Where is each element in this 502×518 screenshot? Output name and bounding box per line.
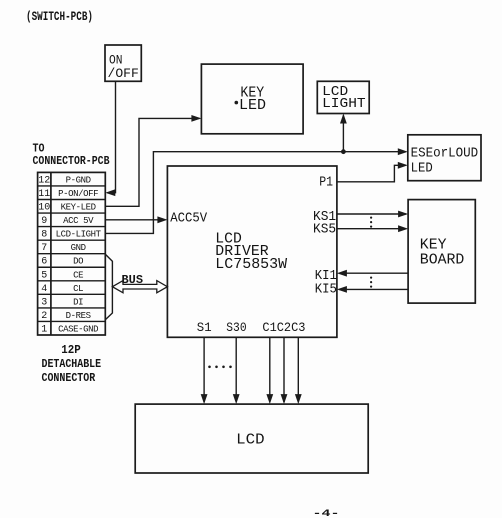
svg-text:DI: DI xyxy=(73,297,83,307)
brace grouping pins 6-2 xyxy=(105,254,112,320)
pin 6 DO xyxy=(41,257,83,268)
pin label C1C2C3 xyxy=(262,321,305,335)
box KEY BOARD xyxy=(408,200,475,304)
wire C3 to LCD xyxy=(295,337,302,404)
wire ON/OFF switch to pin 11 xyxy=(105,81,115,196)
svg-text:2: 2 xyxy=(41,311,47,322)
pin 10 KEY-LED xyxy=(38,203,95,214)
svg-text:ESEorLOUD: ESEorLOUD xyxy=(411,146,479,161)
wire pin 9 ACC 5V to LCD driver ACC5V xyxy=(105,216,167,223)
svg-text:-4-: -4- xyxy=(313,508,340,518)
svg-text:12P: 12P xyxy=(61,343,81,357)
svg-text:ACC5V: ACC5V xyxy=(170,212,208,227)
svg-text:ACC 5V: ACC 5V xyxy=(63,216,94,226)
svg-text:DETACHABLE: DETACHABLE xyxy=(42,357,102,371)
svg-text:3: 3 xyxy=(41,297,47,308)
svg-text:LCD: LCD xyxy=(236,432,264,449)
svg-text:KS5: KS5 xyxy=(313,222,336,237)
svg-text:11: 11 xyxy=(38,189,50,200)
svg-text:S30: S30 xyxy=(226,321,246,335)
pin label S1 xyxy=(197,321,212,335)
wire S30 to LCD xyxy=(233,337,240,404)
svg-text:D-RES: D-RES xyxy=(66,311,91,321)
wire C1 to LCD xyxy=(266,337,273,404)
pin 9 ACC 5V xyxy=(41,216,94,227)
box ESEorLOUD LED xyxy=(408,135,481,181)
svg-text:6: 6 xyxy=(41,257,47,268)
svg-text:LED: LED xyxy=(411,162,433,177)
dots between KS1 and KS5 wires xyxy=(370,217,372,228)
switch SW ON/OFF box xyxy=(105,45,141,81)
svg-text:12: 12 xyxy=(38,175,50,186)
page number -4- xyxy=(313,508,340,518)
pin label ACC5V xyxy=(170,212,208,227)
pin label KI5 xyxy=(315,282,337,297)
pin 7 GND xyxy=(41,243,85,254)
pin label S30 xyxy=(226,321,246,335)
svg-text:P-ON/OFF: P-ON/OFF xyxy=(58,189,98,199)
svg-text:CASE-GND: CASE-GND xyxy=(58,325,98,335)
svg-text:LC75853W: LC75853W xyxy=(215,256,287,273)
pin label P1 xyxy=(319,176,333,191)
svg-text:7: 7 xyxy=(41,243,47,254)
bus double arrow xyxy=(112,281,167,293)
svg-text:CE: CE xyxy=(73,270,83,280)
svg-text:5: 5 xyxy=(41,270,47,281)
svg-text:9: 9 xyxy=(41,216,47,227)
junction node on LCD-LIGHT wire xyxy=(341,149,346,154)
artifact dot before LED xyxy=(235,101,239,105)
svg-text:S1: S1 xyxy=(197,321,212,335)
svg-text:KEY: KEY xyxy=(420,238,447,254)
wire pin 10 KEY-LED to KEY LED box xyxy=(105,115,201,206)
connector J1 12P table frame xyxy=(38,172,106,335)
svg-text:CL: CL xyxy=(73,284,83,294)
svg-text:GND: GND xyxy=(71,243,86,253)
pin 1 CASE-GND xyxy=(41,325,98,336)
pin 12 P-GND xyxy=(38,175,90,186)
label 12P DETACHABLE CONNECTOR xyxy=(42,343,102,385)
dots between KI1 and KI5 wires xyxy=(370,277,372,288)
title (SWITCH-PCB) xyxy=(26,10,93,24)
pin 2 D-RES xyxy=(41,311,90,322)
svg-text:(SWITCH-PCB): (SWITCH-PCB) xyxy=(26,10,93,24)
wire KEY BOARD to KI5 xyxy=(337,286,408,293)
pin 8 LCD-LIGHT xyxy=(41,230,101,241)
svg-text:P-GND: P-GND xyxy=(66,175,91,185)
label BUS xyxy=(122,274,144,287)
pin label KS5 xyxy=(313,222,336,237)
box LCD LIGHT xyxy=(317,81,369,113)
box KEY LED xyxy=(201,64,303,134)
svg-text:LCD-LIGHT: LCD-LIGHT xyxy=(56,230,102,240)
wire branch junction to LCD LIGHT box xyxy=(340,114,347,152)
svg-text:DO: DO xyxy=(73,257,83,267)
dots between S1 and S30 wires xyxy=(208,366,232,369)
svg-text:KEY-LED: KEY-LED xyxy=(61,203,96,213)
svg-text:10: 10 xyxy=(38,203,50,214)
wire KEY BOARD to KI1 xyxy=(337,270,408,277)
svg-text:P1: P1 xyxy=(319,176,333,191)
box LCD xyxy=(135,404,368,473)
svg-text:LIGHT: LIGHT xyxy=(322,96,366,112)
svg-text:/OFF: /OFF xyxy=(108,66,139,81)
pin 4 CL xyxy=(41,284,83,295)
svg-text:4: 4 xyxy=(41,284,47,295)
pin 5 CE xyxy=(41,270,83,281)
label TO CONNECTOR-PCB xyxy=(33,141,110,168)
svg-text:BOARD: BOARD xyxy=(420,252,465,268)
wire KS5 to KEY BOARD xyxy=(337,225,408,232)
wire P1 to ESEorLOUD LED xyxy=(337,162,408,182)
wire C2 to LCD xyxy=(281,337,288,404)
pin 11 P-ON/OFF xyxy=(38,189,98,200)
svg-text:1: 1 xyxy=(41,325,47,336)
svg-text:LED: LED xyxy=(239,98,266,114)
wire KS1 to KEY BOARD xyxy=(337,211,408,218)
svg-text:8: 8 xyxy=(41,230,47,241)
wire pin 8 LCD-LIGHT to ESEorLOUD LED xyxy=(105,148,408,233)
svg-text:CONNECTOR: CONNECTOR xyxy=(42,371,96,385)
pin label KI1 xyxy=(315,269,337,284)
pin label KS1 xyxy=(313,210,336,225)
svg-text:C1C2C3: C1C2C3 xyxy=(262,321,305,335)
IC U1 LCD DRIVER LC75853W box xyxy=(167,166,337,337)
svg-text:CONNECTOR-PCB: CONNECTOR-PCB xyxy=(33,154,110,168)
wire S1 to LCD xyxy=(201,337,208,404)
svg-text:KI5: KI5 xyxy=(315,282,337,297)
pin 3 DI xyxy=(41,297,83,308)
